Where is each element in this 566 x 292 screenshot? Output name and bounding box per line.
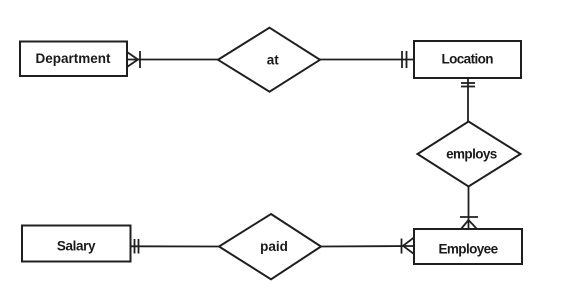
wire employs-Employee	[468, 187, 470, 230]
crow's foot (many) at Employee left	[403, 238, 414, 255]
wire Department-at	[127, 59, 218, 61]
crow's foot (many) at Department	[127, 52, 138, 67]
wire paid-Employee	[321, 245, 414, 248]
relationship at	[218, 28, 320, 92]
svg-text:paid: paid	[260, 239, 288, 254]
entity Department	[20, 42, 127, 77]
wire at-Location	[320, 59, 414, 61]
svg-text:Department: Department	[35, 51, 111, 66]
wire Salary-paid	[131, 245, 220, 247]
svg-text:employs: employs	[446, 147, 497, 162]
crow's foot (many) above Employee	[461, 220, 477, 229]
wire Location-employs	[467, 78, 469, 122]
entity Employee	[414, 229, 522, 264]
svg-text:Salary: Salary	[57, 239, 96, 254]
cardinality bar left of Employee	[401, 239, 403, 254]
relationship paid	[219, 214, 321, 279]
cardinality bar near Department	[139, 51, 141, 68]
entity Salary	[22, 226, 131, 262]
double bar (one and only one) near Location	[402, 51, 407, 68]
double bar (one and only one) near Salary	[135, 239, 139, 254]
relationship employs	[418, 122, 521, 187]
cardinality bar above Employee	[460, 216, 478, 218]
svg-text:at: at	[267, 53, 280, 68]
svg-text:Location: Location	[441, 52, 493, 67]
double bar (one and only one) below Location	[461, 83, 475, 87]
entity Location	[414, 41, 521, 78]
svg-text:Employee: Employee	[439, 242, 499, 257]
